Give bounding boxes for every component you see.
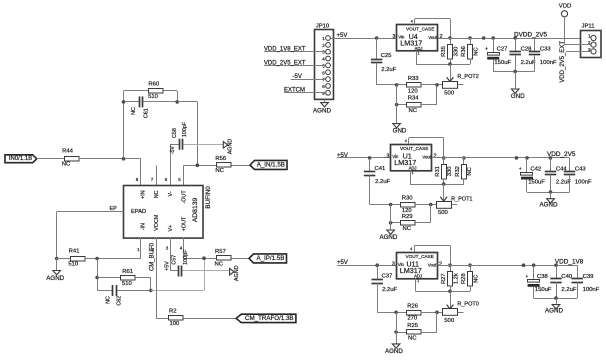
svg-text:BUFIN0: BUFIN0: [205, 186, 212, 209]
wire feedback left rail: [123, 91, 125, 159]
capacitor C33: [529, 38, 557, 72]
svg-text:Vin: Vin: [398, 34, 405, 39]
net label EXTCM: [284, 88, 325, 94]
svg-text:A_IN/1.5B: A_IN/1.5B: [257, 162, 285, 169]
AD8139 EPAD label: [131, 209, 146, 215]
svg-text:R32: R32: [455, 166, 461, 177]
capacitor C38: [525, 263, 552, 298]
AD8139 bottom pin labels: [141, 214, 188, 231]
svg-text:2.2uF: 2.2uF: [382, 287, 397, 293]
svg-text:VOUT_CASE: VOUT_CASE: [405, 254, 433, 259]
svg-text:R44: R44: [62, 149, 74, 155]
net VDD_2V5_EXT at JP11 pin3: [560, 41, 590, 83]
potentiometer R_POT2: [437, 64, 479, 96]
wire pin1 riser: [97, 238, 141, 259]
svg-text:Vout: Vout: [428, 262, 437, 267]
svg-text:2.2uF: 2.2uF: [381, 67, 396, 73]
regulator U1 LM317 box: [391, 145, 432, 171]
svg-text:AGND: AGND: [46, 275, 64, 282]
svg-text:+OUT: +OUT: [182, 216, 188, 231]
svg-text:100nF: 100nF: [575, 180, 592, 186]
svg-text:GND: GND: [393, 128, 407, 135]
resistor R30: [370, 196, 433, 214]
resistor R35: [441, 36, 459, 64]
svg-text:C38: C38: [537, 274, 549, 280]
pin numbers top: [136, 177, 182, 182]
svg-text:+5V: +5V: [337, 260, 348, 266]
svg-text:2.2uF: 2.2uF: [521, 60, 536, 66]
svg-text:VDD_2V5_EXT: VDD_2V5_EXT: [560, 41, 566, 83]
svg-text:C40: C40: [561, 274, 573, 280]
svg-text:100nF: 100nF: [583, 287, 600, 293]
net +5V wire U1: [337, 153, 391, 159]
capacitor C28: [509, 36, 536, 71]
svg-text:AGND: AGND: [379, 234, 397, 241]
svg-text:R34: R34: [408, 96, 420, 102]
resistor R2: [156, 308, 236, 327]
junction C61 left: [122, 100, 126, 104]
svg-text:NC: NC: [215, 168, 224, 174]
U1 ADJ wire: [410, 170, 464, 186]
capacitor C43: [564, 158, 592, 192]
svg-text:100pF: 100pF: [183, 249, 189, 265]
svg-text:3: 3: [392, 262, 395, 268]
svg-text:3: 3: [392, 34, 395, 40]
svg-text:C57: C57: [172, 255, 178, 265]
resistor R28: [461, 263, 479, 291]
svg-text:C27: C27: [497, 47, 508, 53]
junction R41 right: [95, 257, 99, 261]
net label VDD_2V5_EXT: [264, 60, 325, 66]
wire IN0 to R44: [37, 158, 64, 160]
svg-text:120: 120: [408, 88, 419, 94]
net +5V wire U11: [337, 260, 397, 266]
svg-text:+IN: +IN: [141, 190, 147, 199]
svg-text:ADJ: ADJ: [414, 273, 422, 278]
wire +OUT row: [184, 258, 218, 260]
AGND of section U1: [379, 205, 397, 242]
net tag A_IN/1.5B: [250, 160, 287, 169]
AGND below VDD_2V5 bank: [540, 192, 558, 209]
svg-text:R35: R35: [441, 46, 447, 57]
svg-text:NC: NC: [408, 335, 417, 341]
wire -OUT row: [184, 165, 218, 167]
resistor R27: [441, 263, 459, 291]
resistor R44: [62, 149, 79, 168]
net CM_BUF0 riser: [150, 238, 157, 318]
GND of section U4: [393, 85, 407, 135]
capacitor C40: [550, 263, 577, 298]
wire R44 to +IN node: [79, 158, 142, 160]
net -5V label: [170, 146, 176, 155]
AGND of section U11: [385, 312, 403, 355]
regulator U11 LM317 box: [397, 253, 438, 279]
svg-text:VOCM: VOCM: [154, 214, 160, 231]
wire C61 to -OUT rail: [177, 102, 197, 166]
svg-text:AGND: AGND: [234, 265, 240, 281]
svg-text:NC: NC: [154, 190, 160, 198]
AD8139 top pin labels: [141, 190, 188, 204]
svg-text:R30: R30: [402, 196, 414, 202]
pin 7 NC stub: [156, 166, 158, 186]
svg-text:V-: V-: [168, 191, 174, 196]
svg-text:R57: R57: [215, 249, 226, 255]
wire VDD_2V5 rail: [432, 151, 576, 160]
pin numbers bottom: [137, 245, 183, 252]
net +5V label at V+: [164, 261, 170, 271]
connector JP10 box: [315, 23, 334, 99]
potentiometer R_POT0: [437, 291, 479, 324]
resistor R29: [389, 205, 431, 233]
svg-text:IN0/1.1B: IN0/1.1B: [9, 156, 32, 162]
svg-text:AGND: AGND: [313, 108, 331, 115]
svg-text:-5V: -5V: [170, 146, 176, 155]
capacitor C57: [172, 249, 230, 277]
svg-text:Vin: Vin: [392, 154, 399, 159]
potentiometer R_POT1: [431, 184, 473, 216]
svg-text:-IN: -IN: [141, 223, 147, 230]
U1 labels: [386, 139, 436, 175]
resistor R41: [57, 249, 97, 268]
svg-text:EXTCM: EXTCM: [284, 88, 305, 94]
U1 case wire: [409, 138, 444, 158]
svg-text:4: 4: [405, 139, 407, 143]
wire DVDD_2V5 bottom: [493, 70, 534, 74]
U11 ADJ wire: [416, 278, 471, 293]
svg-text:NC: NC: [467, 167, 473, 175]
junction +OUT: [202, 256, 206, 260]
wire VDD_1V8 rail: [439, 259, 584, 268]
svg-text:4: 4: [410, 247, 412, 251]
svg-text:VDD_2V5_EXT: VDD_2V5_EXT: [264, 60, 306, 66]
svg-text:NC: NC: [473, 275, 479, 283]
svg-text:Vout: Vout: [422, 154, 431, 159]
resistor R25: [394, 312, 437, 341]
svg-text:-5V: -5V: [293, 74, 302, 80]
wire VDD to JP11 pin2: [565, 44, 591, 46]
JP10 pin1 +5V wire: [331, 33, 397, 39]
svg-text:C61: C61: [144, 108, 150, 118]
junction -OUT: [196, 163, 200, 167]
svg-text:EPAD: EPAD: [131, 209, 146, 215]
svg-text:330: 330: [447, 167, 453, 177]
capacitor C27: [485, 36, 512, 71]
svg-text:R60: R60: [148, 81, 160, 87]
svg-text:VDD: VDD: [559, 4, 571, 10]
pin 4 riser: [183, 238, 185, 259]
junction EP/R41: [55, 257, 59, 261]
svg-text:1: 1: [412, 171, 414, 175]
EP pin wire: [57, 206, 124, 259]
svg-text:CM_BUF0: CM_BUF0: [150, 242, 156, 271]
svg-text:GND: GND: [511, 93, 525, 100]
capacitor C58: [172, 121, 224, 150]
resistor R61: [97, 269, 151, 287]
svg-text:V+: V+: [168, 225, 174, 232]
svg-text:VDD_1V8: VDD_1V8: [555, 259, 584, 266]
svg-text:Vout: Vout: [428, 35, 437, 40]
svg-text:500: 500: [438, 210, 449, 216]
wire feedback to +OUT node: [151, 258, 205, 290]
svg-text:2.2uF: 2.2uF: [561, 287, 576, 293]
svg-text:DVDD_2V5: DVDD_2V5: [514, 31, 547, 38]
junction C62 right: [149, 289, 153, 293]
svg-text:AGND: AGND: [385, 348, 403, 355]
U11 labels: [392, 247, 442, 283]
wire left rail down: [97, 259, 113, 291]
svg-text:R56: R56: [215, 156, 227, 162]
svg-text:C33: C33: [540, 47, 552, 53]
resistor R36: [461, 36, 479, 64]
svg-text:R29: R29: [402, 214, 413, 220]
wire +IN down to pin 8: [140, 159, 142, 185]
svg-text:NC: NC: [403, 226, 412, 232]
svg-text:510: 510: [122, 281, 133, 287]
svg-text:510: 510: [68, 262, 79, 268]
svg-text:500: 500: [444, 318, 455, 324]
power VDD symbol: [559, 4, 571, 45]
U4 ADJ wire: [416, 51, 470, 66]
svg-text:R33: R33: [408, 76, 420, 82]
svg-text:330: 330: [453, 47, 459, 57]
svg-text:C37: C37: [382, 274, 393, 280]
wire VDD_1V8 bottom: [534, 296, 578, 300]
svg-text:C58: C58: [172, 128, 178, 138]
svg-text:NC: NC: [409, 108, 418, 114]
svg-text:150uF: 150uF: [528, 180, 545, 186]
svg-text:4: 4: [411, 20, 413, 24]
svg-text:AGND: AGND: [540, 202, 558, 209]
svg-text:C39: C39: [583, 274, 594, 280]
capacitor C37: [371, 263, 397, 312]
AGND below R41: [46, 259, 64, 282]
U4 case wire: [415, 19, 451, 39]
wire DVDD_2V5 rail: [438, 31, 580, 40]
U11 case wire: [415, 246, 451, 266]
wire R60 right down: [177, 91, 179, 102]
svg-text:1: 1: [588, 33, 591, 38]
capacitor C62: [105, 285, 150, 306]
AGND below VDD_1V8 bank: [545, 298, 563, 314]
svg-text:R26: R26: [407, 303, 419, 309]
svg-text:+5V: +5V: [164, 261, 170, 271]
svg-text:NC: NC: [473, 47, 479, 55]
net tag A_IP/1.5B: [249, 254, 287, 263]
GND below DVDD_2V5 bank: [511, 72, 525, 101]
capacitor C44: [545, 156, 572, 192]
svg-text:2: 2: [439, 261, 442, 267]
svg-text:100pF: 100pF: [182, 121, 188, 137]
AGND symbol at C57: [230, 265, 240, 281]
svg-text:+5V: +5V: [337, 33, 348, 39]
svg-text:C25: C25: [381, 53, 393, 59]
svg-text:+: +: [525, 274, 528, 280]
svg-text:VOUT_CASE: VOUT_CASE: [400, 146, 428, 151]
svg-text:500: 500: [444, 91, 455, 97]
svg-text:C42: C42: [530, 167, 541, 173]
resistor R32: [455, 156, 473, 184]
svg-text:NC: NC: [62, 162, 71, 168]
resistor R57: [215, 249, 231, 268]
pin 6 V- riser: [170, 144, 179, 185]
svg-text:+: +: [485, 47, 488, 53]
capacitor C41: [364, 156, 391, 204]
svg-text:-OUT: -OUT: [182, 190, 188, 204]
svg-text:CM_TRAFO/1.3B: CM_TRAFO/1.3B: [245, 315, 293, 322]
svg-text:EP: EP: [110, 206, 118, 212]
svg-text:VOUT_CASE: VOUT_CASE: [406, 26, 434, 31]
svg-text:3: 3: [386, 154, 389, 160]
svg-text:A_IP/1.5B: A_IP/1.5B: [256, 255, 284, 262]
svg-text:R25: R25: [407, 323, 419, 329]
pin 3 V+ riser: [170, 238, 179, 271]
svg-text:C41: C41: [375, 166, 386, 172]
svg-text:ADJ: ADJ: [415, 46, 423, 51]
wire R61 right down: [150, 278, 152, 291]
svg-text:NC: NC: [215, 262, 224, 268]
wire R57 to tag: [232, 258, 250, 260]
svg-text:C43: C43: [575, 167, 587, 173]
AD8139 value BUFIN0: [205, 186, 212, 209]
capacitor C42: [519, 156, 546, 192]
svg-text:R31: R31: [435, 166, 441, 177]
resistor R60: [124, 81, 178, 100]
net tag CM_TRAFO/1.3B: [236, 314, 296, 322]
svg-text:R61: R61: [122, 269, 133, 275]
svg-text:R27: R27: [441, 273, 447, 284]
svg-text:1: 1: [417, 279, 419, 283]
net tag IN0/1.1B: [5, 155, 37, 163]
svg-text:R28: R28: [461, 273, 467, 284]
resistor R31: [435, 156, 453, 184]
JP11 pins: [588, 33, 596, 54]
svg-text:2.2uF: 2.2uF: [375, 179, 390, 185]
resistor R26: [377, 303, 439, 321]
svg-text:150uF: 150uF: [494, 60, 511, 66]
wire VDD_2V5 bottom: [527, 190, 570, 194]
svg-text:VDD_1V8_EXT: VDD_1V8_EXT: [264, 47, 306, 53]
svg-text:100nF: 100nF: [540, 60, 557, 66]
net label VDD_1V8_EXT: [264, 47, 325, 53]
svg-text:JP11: JP11: [582, 24, 595, 30]
connector JP11 box: [581, 24, 602, 58]
svg-text:+5V: +5V: [337, 153, 348, 159]
svg-text:150uF: 150uF: [535, 287, 552, 293]
svg-text:270: 270: [407, 316, 418, 322]
AGND below JP10: [313, 99, 331, 114]
svg-text:510: 510: [148, 94, 159, 100]
op-amp U: AD8139 box: [124, 186, 204, 239]
AGND symbol at C58: [223, 139, 233, 155]
capacitor C39: [571, 265, 599, 298]
svg-text:2: 2: [433, 153, 436, 159]
junction C61 right: [175, 100, 179, 104]
svg-text:AD8139: AD8139: [192, 197, 199, 222]
node +IN junction: [122, 157, 126, 161]
net label -5V: [291, 74, 326, 80]
svg-text:R2: R2: [169, 308, 177, 314]
capacitor C25: [371, 36, 397, 85]
capacitor C61: [124, 96, 178, 118]
U4 labels: [392, 20, 442, 56]
svg-text:R_POT2: R_POT2: [457, 74, 478, 80]
svg-text:1.2k: 1.2k: [453, 273, 459, 284]
AD8139 part name: [192, 197, 199, 222]
pin 5 riser: [183, 165, 185, 185]
svg-text:+: +: [519, 167, 522, 173]
svg-text:NC: NC: [105, 296, 111, 304]
JP10 pins: [322, 36, 330, 96]
svg-text:100: 100: [169, 321, 180, 327]
svg-text:NC: NC: [131, 107, 137, 115]
wire R56 to tag: [232, 165, 251, 167]
svg-text:C62: C62: [117, 296, 123, 306]
svg-text:AGND: AGND: [228, 139, 234, 155]
svg-text:JP10: JP10: [316, 23, 330, 29]
svg-text:R_POT0: R_POT0: [457, 301, 478, 307]
svg-text:R41: R41: [69, 249, 80, 255]
svg-text:AGND: AGND: [545, 308, 563, 315]
svg-text:Vin: Vin: [398, 262, 405, 267]
resistor R56: [215, 156, 231, 174]
resistor R33: [377, 76, 439, 94]
junction R61 left: [95, 276, 99, 280]
svg-text:ADJ: ADJ: [409, 165, 417, 170]
svg-text:R_POT1: R_POT1: [451, 197, 472, 203]
regulator U4 LM317 box: [397, 25, 438, 51]
svg-text:1: 1: [418, 52, 420, 56]
resistor R34: [395, 85, 437, 114]
svg-text:R36: R36: [461, 46, 467, 57]
